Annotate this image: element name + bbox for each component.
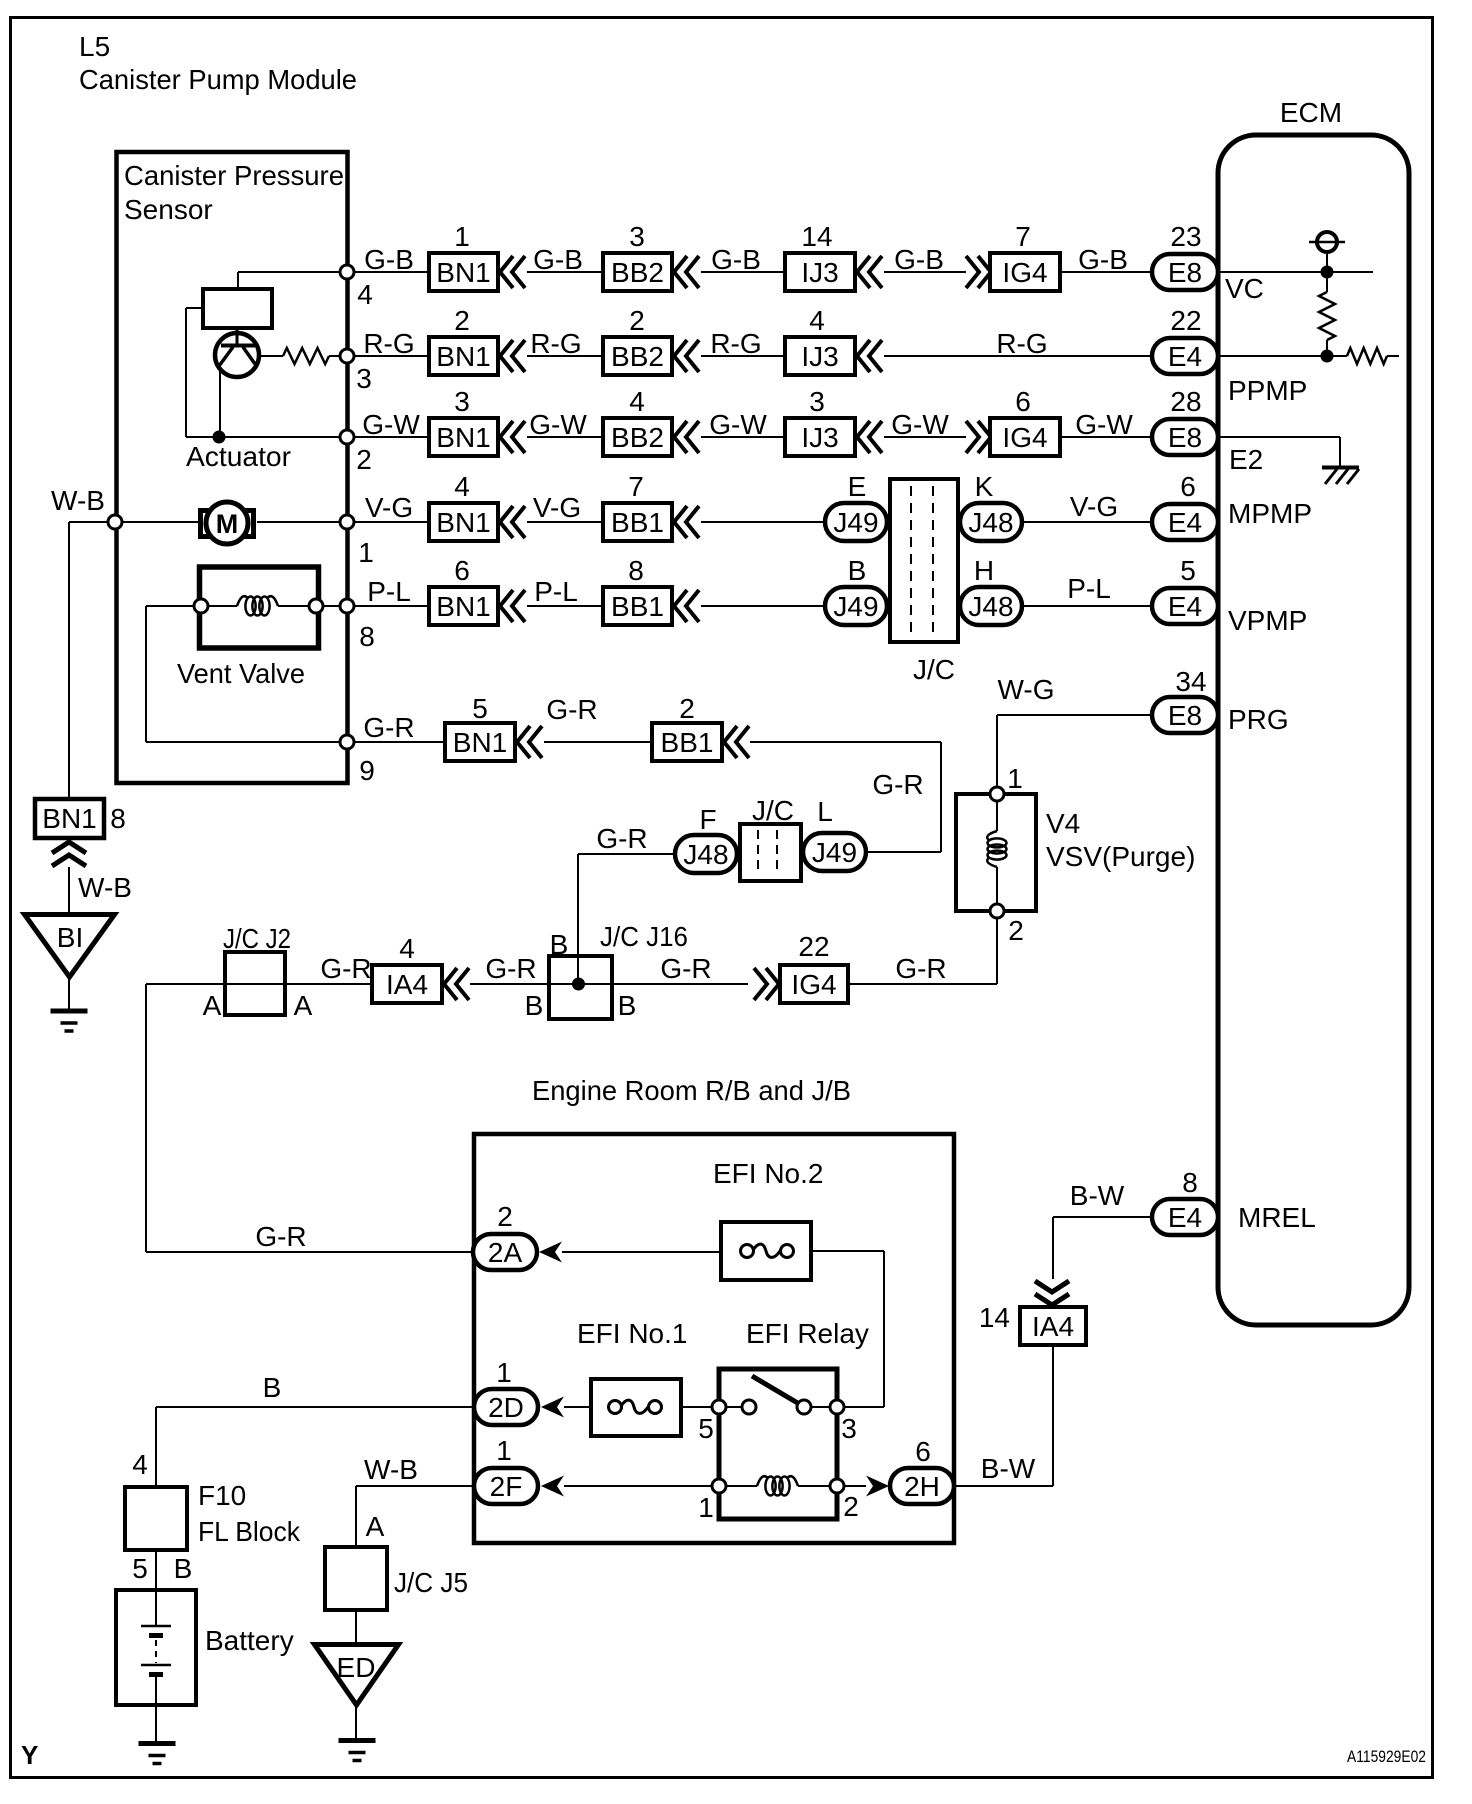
svg-text:K: K xyxy=(975,471,994,502)
wire EFI No.2 fuse to relay pin 3 xyxy=(811,1251,884,1407)
svg-text:6: 6 xyxy=(454,555,470,586)
relay switch blade xyxy=(752,1376,801,1405)
connector IG4 pin 22 xyxy=(754,931,848,1003)
ECM connector E8 pin 34 (PRG) xyxy=(1152,666,1218,733)
svg-text:2: 2 xyxy=(454,305,470,336)
svg-text:B: B xyxy=(525,990,544,1021)
svg-text:J49: J49 xyxy=(833,507,878,538)
svg-text:G-R: G-R xyxy=(255,1221,306,1252)
junction dot emitter/G-W xyxy=(213,431,226,444)
svg-text:J48: J48 xyxy=(683,839,728,870)
title L5 Canister Pump Module xyxy=(79,31,357,95)
svg-text:IJ3: IJ3 xyxy=(801,257,838,288)
svg-text:23: 23 xyxy=(1170,221,1201,252)
svg-text:V-G: V-G xyxy=(533,492,581,523)
svg-text:Canister Pressure: Canister Pressure xyxy=(124,160,344,191)
earth ground below BI xyxy=(51,1009,88,1014)
svg-text:VPMP: VPMP xyxy=(1228,605,1307,636)
svg-text:B: B xyxy=(174,1553,193,1584)
svg-text:BB2: BB2 xyxy=(611,257,664,288)
wire B-W from 2H up to IA4 14 xyxy=(954,1345,1053,1486)
svg-text:G-B: G-B xyxy=(533,244,583,275)
connector IA4 pin 4 xyxy=(372,933,469,1003)
fuse EFI No.2 xyxy=(721,1222,811,1280)
wire G-R from BB1 to J49 L (with corner) xyxy=(750,742,941,852)
svg-text:BB2: BB2 xyxy=(611,422,664,453)
svg-text:E8: E8 xyxy=(1168,700,1202,731)
wire 2A to EFI No.2 fuse xyxy=(562,1251,721,1253)
svg-text:E4: E4 xyxy=(1168,591,1202,622)
svg-text:A: A xyxy=(366,1511,385,1542)
svg-text:J/C: J/C xyxy=(913,654,955,685)
svg-text:BB1: BB1 xyxy=(661,727,714,758)
svg-text:3: 3 xyxy=(454,386,470,417)
wire G-R from J2 down to 2A xyxy=(146,984,473,1252)
svg-text:5: 5 xyxy=(1180,555,1196,586)
svg-text:W-B: W-B xyxy=(364,1454,418,1485)
svg-text:V-G: V-G xyxy=(365,492,413,523)
svg-text:G-R: G-R xyxy=(320,953,371,984)
svg-text:E: E xyxy=(848,471,867,502)
wire J48 F to J/C J16 (corner) xyxy=(578,854,675,956)
svg-text:IA4: IA4 xyxy=(1032,1311,1074,1342)
svg-text:2: 2 xyxy=(497,1201,513,1232)
connector IG4 pin 6 (row3) xyxy=(966,386,1060,456)
connector J49 pin L xyxy=(803,796,866,871)
svg-text:V4: V4 xyxy=(1046,808,1080,839)
svg-text:P-L: P-L xyxy=(1067,573,1111,604)
vent valve terminal right xyxy=(309,599,323,613)
connector BN1 pin 1 (row1) xyxy=(429,221,525,291)
junction connector J/C J2 xyxy=(203,923,313,1021)
svg-text:G-R: G-R xyxy=(596,823,647,854)
svg-text:28: 28 xyxy=(1170,386,1201,417)
wire 2F arrow to relay pin 1 xyxy=(564,1485,712,1487)
svg-text:5: 5 xyxy=(698,1413,714,1444)
chassis ground inside ECM xyxy=(1322,468,1359,485)
pull-up resistor (vertical) inside ECM xyxy=(1319,278,1335,350)
earth ground below battery xyxy=(139,1741,176,1746)
wire transistor emitter to G-W row xyxy=(219,367,221,437)
svg-text:G-W: G-W xyxy=(891,409,949,440)
wire F10 to battery xyxy=(155,1550,157,1590)
svg-text:6: 6 xyxy=(1180,471,1196,502)
relay pin 5 terminal xyxy=(698,1400,726,1444)
connector BN1 pin 4 (row4) xyxy=(429,471,525,541)
connector IA4 pin 14 xyxy=(979,1281,1086,1345)
svg-text:B: B xyxy=(618,990,637,1021)
svg-text:VC: VC xyxy=(1225,273,1264,304)
svg-text:P-L: P-L xyxy=(367,576,411,607)
svg-text:R-G: R-G xyxy=(530,328,581,359)
svg-text:EFI No.2: EFI No.2 xyxy=(713,1158,823,1189)
connector BN1 pin 8 (ground) xyxy=(35,799,126,866)
connector IG4 pin 7 (row1) xyxy=(966,221,1060,291)
connector J49 pin E xyxy=(825,471,887,541)
svg-text:3: 3 xyxy=(629,221,645,252)
svg-text:J/C J16: J/C J16 xyxy=(600,921,688,952)
svg-text:IJ3: IJ3 xyxy=(801,341,838,372)
node W-B on module box edge xyxy=(108,515,122,529)
wire B from 2D to F10 (left) xyxy=(156,1407,474,1487)
connector BN1 pin 6 (row5) xyxy=(429,555,525,625)
junction dot VC node xyxy=(1321,266,1334,279)
wire VC inside ECM xyxy=(1218,271,1373,273)
node pin 2 of canister pump module xyxy=(340,430,372,475)
vent valve terminal left xyxy=(194,599,208,613)
svg-text:Canister Pump Module: Canister Pump Module xyxy=(79,64,357,95)
transistor Q1 (sensor output) xyxy=(215,328,259,377)
VSV terminal pin 1 xyxy=(990,763,1023,801)
svg-text:FL Block: FL Block xyxy=(198,1516,301,1547)
svg-text:R-G: R-G xyxy=(710,328,761,359)
svg-text:ECM: ECM xyxy=(1280,97,1342,128)
svg-text:P-L: P-L xyxy=(534,576,578,607)
Canister Pressure Sensor box xyxy=(117,152,348,783)
connector 2H pin 6 xyxy=(866,1436,954,1504)
svg-text:BN1: BN1 xyxy=(436,341,490,372)
vent valve V1 box xyxy=(200,567,319,648)
ECM connector E4 pin 22 (PPMP) xyxy=(1152,305,1218,374)
svg-text:J49: J49 xyxy=(812,837,857,868)
svg-text:A: A xyxy=(294,990,313,1021)
svg-text:2: 2 xyxy=(356,444,372,475)
svg-text:G-B: G-B xyxy=(1078,244,1128,275)
wire V-G row 4 segments xyxy=(354,521,1152,523)
ground point BI xyxy=(25,915,115,978)
svg-text:Actuator: Actuator xyxy=(186,441,291,472)
wire ED to earth xyxy=(355,1707,357,1738)
svg-text:G-W: G-W xyxy=(529,409,587,440)
wire BI to earth xyxy=(68,979,70,1009)
svg-text:3: 3 xyxy=(809,386,825,417)
connector 2A pin 2 xyxy=(473,1201,562,1270)
svg-text:4: 4 xyxy=(132,1449,148,1480)
VSV terminal pin 2 xyxy=(990,904,1024,946)
svg-text:8: 8 xyxy=(359,621,375,652)
svg-text:IJ3: IJ3 xyxy=(801,422,838,453)
wire battery to earth xyxy=(155,1705,157,1741)
svg-text:J/C J2: J/C J2 xyxy=(223,923,291,954)
connector IJ3 pin 14 (row1) xyxy=(785,221,882,291)
svg-text:3: 3 xyxy=(841,1413,857,1444)
svg-text:L: L xyxy=(817,796,833,827)
svg-text:4: 4 xyxy=(454,471,470,502)
svg-text:IA4: IA4 xyxy=(386,969,428,1000)
connector BB2 pin 3 (row1) xyxy=(603,221,699,291)
connector 2D pin 1 xyxy=(474,1357,564,1425)
svg-text:A: A xyxy=(203,990,222,1021)
svg-text:1: 1 xyxy=(698,1492,714,1523)
svg-text:1: 1 xyxy=(496,1357,512,1388)
svg-text:PPMP: PPMP xyxy=(1228,375,1307,406)
svg-text:J48: J48 xyxy=(968,507,1013,538)
wire BN1 to BB1 (row6) xyxy=(544,741,652,743)
svg-text:G-B: G-B xyxy=(711,244,761,275)
svg-text:R-G: R-G xyxy=(996,328,1047,359)
svg-text:PRG: PRG xyxy=(1228,704,1289,735)
svg-text:2: 2 xyxy=(679,693,695,724)
svg-text:8: 8 xyxy=(628,555,644,586)
wire pin4 to actuator (vertical) xyxy=(237,272,239,289)
svg-text:G-W: G-W xyxy=(1075,409,1133,440)
svg-text:8: 8 xyxy=(110,803,126,834)
ECM connector E4 pin 5 (VPMP) xyxy=(1152,555,1218,624)
wire EFI No.1 fuse to relay pin 5 xyxy=(681,1406,712,1408)
wire VSV pin2 to IG4 22 xyxy=(848,918,997,984)
svg-text:9: 9 xyxy=(359,755,375,786)
svg-text:B: B xyxy=(848,555,867,586)
svg-text:V-G: V-G xyxy=(1070,491,1118,522)
svg-text:J48: J48 xyxy=(968,591,1013,622)
VSV labels V4 VSV(Purge) xyxy=(1046,808,1195,872)
svg-text:E4: E4 xyxy=(1168,1202,1202,1233)
pump motor M1 xyxy=(122,502,340,544)
svg-text:22: 22 xyxy=(798,931,829,962)
svg-text:Sensor: Sensor xyxy=(124,194,213,225)
svg-text:G-R: G-R xyxy=(546,694,597,725)
svg-text:B: B xyxy=(550,929,569,960)
junction connector J/C J16 xyxy=(525,921,688,1021)
svg-text:F10: F10 xyxy=(198,1480,246,1511)
ground point ED xyxy=(315,1645,399,1706)
svg-text:5: 5 xyxy=(132,1553,148,1584)
svg-text:1: 1 xyxy=(496,1435,512,1466)
earth ground below ED xyxy=(339,1738,376,1743)
svg-text:EFI Relay: EFI Relay xyxy=(746,1318,869,1349)
svg-text:E8: E8 xyxy=(1168,422,1202,453)
connector BB1 pin 7 (row4) xyxy=(603,471,699,541)
svg-text:B: B xyxy=(263,1372,282,1403)
connector 2F pin 1 xyxy=(474,1435,564,1504)
svg-text:W-G: W-G xyxy=(997,674,1054,705)
wire actuator left loop to G-W row xyxy=(186,308,203,437)
series resistor (horizontal) inside ECM xyxy=(1347,348,1399,364)
svg-text:W-B: W-B xyxy=(51,485,105,516)
svg-text:1: 1 xyxy=(358,537,374,568)
svg-text:E8: E8 xyxy=(1168,257,1202,288)
svg-text:14: 14 xyxy=(801,221,832,252)
svg-text:2A: 2A xyxy=(488,1237,523,1268)
svg-text:7: 7 xyxy=(628,471,644,502)
connector BB2 pin 2 (row2) xyxy=(603,305,699,375)
svg-text:E2: E2 xyxy=(1229,444,1263,475)
wire W-G from E8 to VSV pin 1 xyxy=(997,715,1152,787)
svg-text:G-B: G-B xyxy=(894,244,944,275)
wire E2 to chassis ground inside ECM xyxy=(1218,437,1340,466)
svg-text:8: 8 xyxy=(1182,1167,1198,1198)
svg-text:2F: 2F xyxy=(490,1471,523,1502)
fusible link F10 FL Block xyxy=(125,1480,301,1550)
wire W-B from 2F to J/C J5 xyxy=(356,1486,474,1547)
relay pin 3 terminal xyxy=(830,1400,857,1444)
wire J16 to IG4 xyxy=(612,983,748,985)
svg-text:J49: J49 xyxy=(833,591,878,622)
relay pin 2 terminal xyxy=(830,1479,859,1522)
svg-text:G-R: G-R xyxy=(660,953,711,984)
svg-text:BI: BI xyxy=(57,922,83,953)
connector BN1 pin 3 (row3) xyxy=(429,386,525,456)
svg-text:M: M xyxy=(216,509,239,539)
relay switch wires xyxy=(726,1406,830,1408)
wire PPMP inside ECM xyxy=(1218,355,1347,357)
svg-text:IG4: IG4 xyxy=(1002,257,1047,288)
wire P-L row 5 segments xyxy=(354,605,1152,607)
connector IJ3 pin 4 (row2) xyxy=(785,305,882,375)
svg-text:G-B: G-B xyxy=(364,244,414,275)
node pin 9 of canister pump module xyxy=(340,735,375,786)
svg-text:G-R: G-R xyxy=(872,769,923,800)
svg-text:4: 4 xyxy=(809,305,825,336)
svg-text:F: F xyxy=(699,804,716,835)
wire vent valve left to G-R row xyxy=(146,606,340,742)
ECM connector E4 pin 8 (MREL) xyxy=(1152,1167,1218,1235)
wire B-W from IA4 to E4 MREL xyxy=(1053,1217,1152,1279)
svg-text:4: 4 xyxy=(357,279,373,310)
relay coil xyxy=(726,1476,830,1495)
svg-text:4: 4 xyxy=(629,386,645,417)
svg-text:BN1: BN1 xyxy=(436,257,490,288)
svg-text:E4: E4 xyxy=(1168,507,1202,538)
wire 2D arrow to EFI No.1 fuse xyxy=(564,1406,591,1408)
relay switch contact left xyxy=(742,1400,756,1414)
svg-text:G-R: G-R xyxy=(485,953,536,984)
connector BB1 pin 2 (row6) xyxy=(652,693,749,761)
wire W-B from module to BN1-8 (left) xyxy=(69,522,108,799)
svg-text:ED: ED xyxy=(337,1652,376,1683)
wire J5 to ED ground xyxy=(355,1610,357,1642)
connector IJ3 pin 3 (row3) xyxy=(785,386,882,456)
actuator block xyxy=(203,289,272,328)
Engine Room R/B and J/B box xyxy=(474,1134,954,1543)
svg-text:Y: Y xyxy=(21,1740,38,1770)
battery BAT1 xyxy=(116,1590,294,1705)
svg-text:7: 7 xyxy=(1015,221,1031,252)
svg-text:4: 4 xyxy=(399,933,415,964)
resistor R1 (sensor internal) xyxy=(259,348,340,364)
junction connector J/C J5 xyxy=(325,1547,468,1610)
wire vent valve right to pin 8 xyxy=(323,605,340,607)
svg-text:Vent Valve: Vent Valve xyxy=(177,658,305,689)
internal power source symbol xyxy=(1309,232,1345,272)
svg-text:B-W: B-W xyxy=(1070,1180,1125,1211)
svg-text:Engine Room R/B and J/B: Engine Room R/B and J/B xyxy=(532,1075,851,1106)
svg-text:L5: L5 xyxy=(79,31,110,62)
svg-text:2D: 2D xyxy=(488,1392,524,1423)
wire G-R pin9 to BN1 xyxy=(354,741,445,743)
relay pin 1 terminal xyxy=(698,1479,726,1523)
junction connector J/C (tall) between J49 and J48 xyxy=(890,479,958,685)
svg-text:J/C J5: J/C J5 xyxy=(394,1567,468,1598)
svg-text:IG4: IG4 xyxy=(791,969,836,1000)
svg-text:BB1: BB1 xyxy=(611,507,664,538)
wire J2 through to IA4 xyxy=(146,983,372,985)
connector J48 pin F xyxy=(675,804,737,873)
svg-text:W-B: W-B xyxy=(78,872,132,903)
svg-text:G-W: G-W xyxy=(709,409,767,440)
svg-text:BB2: BB2 xyxy=(611,341,664,372)
wire G-W row 3 segments xyxy=(186,436,1152,438)
svg-text:BN1: BN1 xyxy=(453,727,507,758)
svg-text:G-W: G-W xyxy=(362,409,420,440)
svg-text:VSV(Purge): VSV(Purge) xyxy=(1046,841,1195,872)
svg-text:6: 6 xyxy=(915,1436,931,1467)
junction connector J/C (small) between J48 F and J49 L xyxy=(740,795,801,881)
node pin 8 of canister pump module xyxy=(340,599,375,652)
connector J48 pin K xyxy=(960,471,1022,541)
svg-text:G-R: G-R xyxy=(895,953,946,984)
svg-text:MREL: MREL xyxy=(1238,1202,1316,1233)
svg-text:2: 2 xyxy=(843,1491,859,1522)
wire R-G row 2 segments xyxy=(354,355,1152,357)
ECM connector E8 pin 23 (VC) xyxy=(1152,221,1218,290)
svg-text:14: 14 xyxy=(979,1302,1010,1333)
node pin 4 of canister pump module xyxy=(340,265,373,310)
node pin 3 of canister pump module xyxy=(340,349,372,394)
EFI relay K1 box xyxy=(719,1369,837,1519)
svg-text:E4: E4 xyxy=(1168,341,1202,372)
wire relay pin2 to 2H xyxy=(844,1485,866,1487)
connector J48 pin H xyxy=(960,555,1022,625)
svg-text:2: 2 xyxy=(629,305,645,336)
connector BB2 pin 4 (row3) xyxy=(603,386,699,456)
svg-text:BN1: BN1 xyxy=(436,507,490,538)
svg-text:J/C: J/C xyxy=(752,795,794,826)
svg-text:34: 34 xyxy=(1175,666,1206,697)
svg-text:5: 5 xyxy=(472,693,488,724)
relay switch contact right xyxy=(797,1400,811,1414)
svg-text:BN1: BN1 xyxy=(436,422,490,453)
svg-text:1: 1 xyxy=(454,221,470,252)
svg-text:Battery: Battery xyxy=(205,1625,294,1656)
svg-text:BB1: BB1 xyxy=(611,591,664,622)
junction dot PPMP node xyxy=(1321,350,1334,363)
connector BN1 pin 5 (row6) xyxy=(445,693,542,761)
svg-text:6: 6 xyxy=(1015,386,1031,417)
connector J49 pin B xyxy=(825,555,887,625)
svg-text:A115929E02: A115929E02 xyxy=(1347,1747,1426,1766)
wire G-B row 1 segments xyxy=(238,271,1152,273)
ECM connector E8 pin 28 (E2) xyxy=(1152,386,1218,455)
svg-text:22: 22 xyxy=(1170,305,1201,336)
svg-text:IG4: IG4 xyxy=(1002,422,1047,453)
svg-text:G-R: G-R xyxy=(363,712,414,743)
svg-text:MPMP: MPMP xyxy=(1228,498,1312,529)
svg-text:BN1: BN1 xyxy=(436,591,490,622)
svg-text:3: 3 xyxy=(356,363,372,394)
node pin 1 of canister pump module xyxy=(340,515,374,568)
svg-text:2: 2 xyxy=(1008,915,1024,946)
ECM U1 outline xyxy=(1218,135,1409,1325)
VSV (Purge) V4 solenoid xyxy=(956,794,1036,911)
connector BN1 pin 2 (row2) xyxy=(429,305,525,375)
ECM connector E4 pin 6 (MPMP) xyxy=(1152,471,1218,540)
connector BB1 pin 8 (row5) xyxy=(603,555,699,625)
svg-text:B-W: B-W xyxy=(981,1453,1036,1484)
wire W-B BN1-8 to BI xyxy=(68,867,70,912)
svg-text:EFI No.1: EFI No.1 xyxy=(577,1318,687,1349)
svg-text:BN1: BN1 xyxy=(42,803,96,834)
svg-text:2H: 2H xyxy=(904,1471,940,1502)
fuse EFI No.1 xyxy=(591,1379,681,1436)
svg-text:H: H xyxy=(974,555,994,586)
svg-text:1: 1 xyxy=(1007,763,1023,794)
svg-text:R-G: R-G xyxy=(363,328,414,359)
wire IA4 to J16 xyxy=(470,983,549,985)
